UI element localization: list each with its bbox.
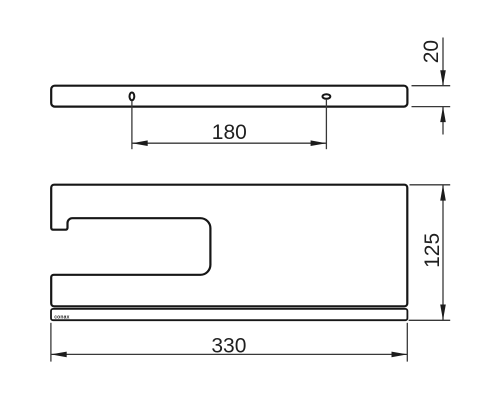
dimension 180 extension line left (from left hole)	[131, 101, 133, 150]
dimension 125 arrow bottom (pointing down)	[440, 305, 446, 321]
dimension 125 arrow top (pointing up)	[440, 185, 446, 201]
dimension 125 line	[442, 185, 444, 320]
dimension 125 extension line top	[410, 184, 451, 186]
dimension 330 extension line right	[406, 323, 408, 362]
svg-text:conax: conax	[54, 314, 69, 320]
hole right (horizontal slot)	[323, 94, 331, 99]
svg-text:20: 20	[420, 40, 443, 63]
bottom view shelf outline with paper slot	[51, 185, 407, 307]
top view bar outline	[51, 86, 407, 107]
svg-text:180: 180	[212, 121, 247, 144]
svg-text:125: 125	[421, 233, 444, 268]
dimension 20 arrow lower (pointing up)	[440, 107, 446, 123]
dimension 20 arrow upper (pointing down)	[440, 70, 446, 86]
dimension 180 arrow left	[132, 140, 148, 146]
dimension 330 line	[51, 353, 407, 355]
dimension 125 extension line bottom	[409, 319, 451, 321]
dimension 330 extension line left	[50, 323, 52, 362]
svg-text:330: 330	[211, 334, 246, 357]
hole left (vertical slot)	[130, 93, 135, 101]
dimension 180 arrow right	[311, 140, 327, 146]
dimension 20 extension line bottom	[412, 106, 451, 108]
front rail strip	[51, 309, 407, 320]
dimension 20 line	[442, 38, 444, 86]
dimension 180 line	[132, 142, 327, 144]
dimension 20 extension line top	[412, 85, 451, 87]
dimension 330 arrow left	[51, 352, 67, 358]
dimension 180 extension line right (from right hole)	[325, 99, 327, 149]
dimension 330 arrow right	[392, 352, 408, 358]
